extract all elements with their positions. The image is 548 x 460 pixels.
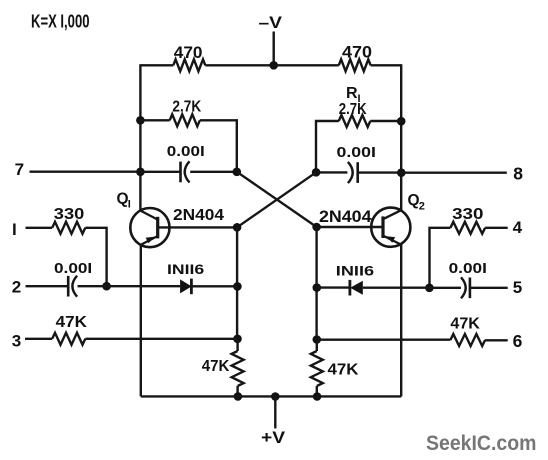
wire terminal 2 lead	[26, 285, 107, 287]
svg-text:3: 3	[12, 331, 21, 350]
node left rail / terminal-7 line junction	[136, 168, 145, 177]
node left 47K / bottom rail	[234, 392, 243, 401]
svg-text:5: 5	[513, 278, 522, 297]
label 2N404 (right)	[319, 208, 372, 226]
wire terminal 4 lead	[430, 228, 508, 288]
watermark SeekIC.com	[426, 432, 536, 455]
svg-text:Q: Q	[117, 190, 129, 207]
svg-text:47K: 47K	[450, 316, 480, 333]
wire Q2 base column	[315, 227, 317, 340]
wire +V supply stub	[274, 397, 276, 429]
wire Q2 base lead	[317, 226, 383, 228]
node right rail / R1 junction	[397, 117, 406, 126]
wire cross-coupling diagonal (right cap to Q1 base)	[237, 172, 316, 227]
wire left diode line	[107, 285, 238, 287]
wire terminal 3 lead	[25, 338, 238, 340]
svg-text:7: 7	[15, 160, 24, 179]
svg-text:47K: 47K	[202, 358, 230, 375]
wire terminal 8 lead	[401, 171, 507, 173]
label 2N404 (left)	[173, 207, 224, 224]
capacitor 0.001 (left coupling)	[167, 143, 205, 183]
legend text K = X 1,000	[31, 12, 90, 32]
capacitor 0.001 (right coupling)	[337, 144, 376, 183]
svg-text:R: R	[346, 85, 358, 102]
svg-text:+V: +V	[261, 428, 286, 447]
resistor 2.7K (left)	[170, 99, 202, 127]
node right cap input	[312, 168, 321, 177]
terminal label 8	[513, 164, 523, 184]
wire Q1 base column	[236, 227, 238, 338]
node left rail / 2.7K junction	[136, 116, 145, 125]
resistor 330 (right)	[450, 206, 485, 234]
resistor 47K (right emitter-bias)	[311, 351, 360, 386]
svg-text:4: 4	[513, 218, 523, 237]
terminal label 7	[15, 160, 24, 179]
svg-text:2N404: 2N404	[319, 208, 372, 226]
svg-text:2: 2	[12, 278, 21, 297]
resistor 470 (right collector load)	[339, 43, 372, 72]
terminal label 2	[12, 278, 21, 297]
wire right diode line	[317, 286, 430, 289]
svg-text:0.00I: 0.00I	[337, 144, 376, 161]
wire Q1 base lead	[158, 226, 237, 228]
wire right R1 branch	[316, 121, 401, 172]
svg-text:470: 470	[342, 43, 372, 62]
svg-text:6: 6	[513, 331, 523, 351]
node Q1 base junction	[233, 223, 242, 232]
node Q2 base / terminal-6 / 47K junction	[313, 335, 322, 344]
svg-text:47K: 47K	[328, 361, 360, 378]
node left trigger junction	[102, 282, 111, 291]
power label +V	[261, 428, 286, 447]
svg-text:Q: Q	[408, 192, 420, 209]
svg-text:470: 470	[174, 43, 203, 62]
svg-text:8: 8	[513, 164, 523, 184]
node right trigger junction	[425, 284, 434, 293]
wire left 47K leads	[236, 339, 238, 397]
resistor 330 (left)	[52, 206, 85, 234]
wire cross-coupling diagonal (left cap to Q2 base)	[237, 172, 317, 227]
terminal label 1	[12, 220, 17, 239]
node Q2 base junction	[312, 223, 321, 232]
wire -V supply stub	[273, 32, 275, 66]
wire right 47K leads	[316, 340, 318, 397]
node Q1 base / diode junction	[233, 282, 242, 291]
transistor Q2 2N404 (right)	[371, 192, 425, 247]
svg-text:0.00I: 0.00I	[167, 143, 205, 160]
svg-text:2.7K: 2.7K	[172, 99, 202, 116]
svg-text:0.00I: 0.00I	[449, 260, 487, 277]
terminal label 3	[12, 331, 21, 350]
svg-text:I: I	[12, 220, 17, 239]
node Q1 base / terminal-3 / 47K junction	[233, 335, 242, 344]
resistor 47K (terminal 3)	[52, 314, 88, 345]
svg-text:2.7K: 2.7K	[339, 101, 367, 118]
terminal label 4	[513, 218, 523, 237]
node right 47K / bottom rail	[313, 392, 322, 401]
wire terminal 7 lead	[30, 170, 141, 172]
capacitor 0.001 (left trigger)	[54, 260, 92, 297]
wire left 2.7K branch	[140, 120, 236, 172]
wire bottom rail (+V bus)	[141, 395, 401, 397]
wire left 0.001 cap line	[140, 171, 236, 173]
resistor R1 2.7K (right)	[339, 85, 371, 127]
svg-text:–V: –V	[259, 14, 283, 32]
node right rail / terminal-8 line junction	[397, 168, 406, 177]
wire terminal 6 lead	[317, 339, 508, 342]
svg-text:2: 2	[419, 200, 425, 212]
resistor 47K (left emitter-bias)	[202, 351, 244, 386]
capacitor 0.001 (right trigger)	[449, 260, 487, 298]
diode 1N116 (right)	[336, 263, 375, 296]
wire right 0.001 cap line	[316, 171, 401, 174]
resistor 47K (terminal 6)	[450, 316, 485, 346]
wire Q2 emitter column	[400, 244, 402, 396]
svg-text:0.00I: 0.00I	[54, 260, 92, 277]
svg-text:INII6: INII6	[336, 263, 375, 279]
svg-text:K=X I,000: K=X I,000	[31, 12, 90, 32]
wire terminal 5 lead	[429, 287, 507, 289]
node +V tap	[271, 392, 280, 401]
svg-text:2N404: 2N404	[173, 207, 224, 224]
svg-text:INII6: INII6	[167, 261, 204, 277]
transistor Q1 2N404 (left)	[117, 190, 170, 247]
svg-text:330: 330	[452, 206, 483, 223]
terminal label 5	[513, 278, 522, 297]
wire top rail (-V bus)	[140, 64, 401, 66]
wire Q1 emitter column	[140, 245, 142, 397]
svg-text:I: I	[128, 199, 131, 211]
svg-text:47K: 47K	[56, 314, 88, 331]
terminal label 6	[513, 331, 523, 351]
resistor 470 (left collector load)	[173, 43, 205, 71]
wire terminal 1 lead	[26, 228, 107, 286]
wire right rail (Q2 collector column)	[400, 64, 402, 211]
svg-text:SeekIC.com: SeekIC.com	[426, 432, 536, 455]
svg-text:330: 330	[54, 206, 85, 223]
diode 1N116 (left)	[167, 261, 204, 294]
node left cap output	[233, 168, 242, 177]
node -V junction on top rail	[269, 61, 278, 70]
power label -V	[259, 14, 283, 32]
wire left rail (Q1 collector column)	[139, 64, 141, 211]
node Q2 base / diode junction	[313, 283, 322, 292]
